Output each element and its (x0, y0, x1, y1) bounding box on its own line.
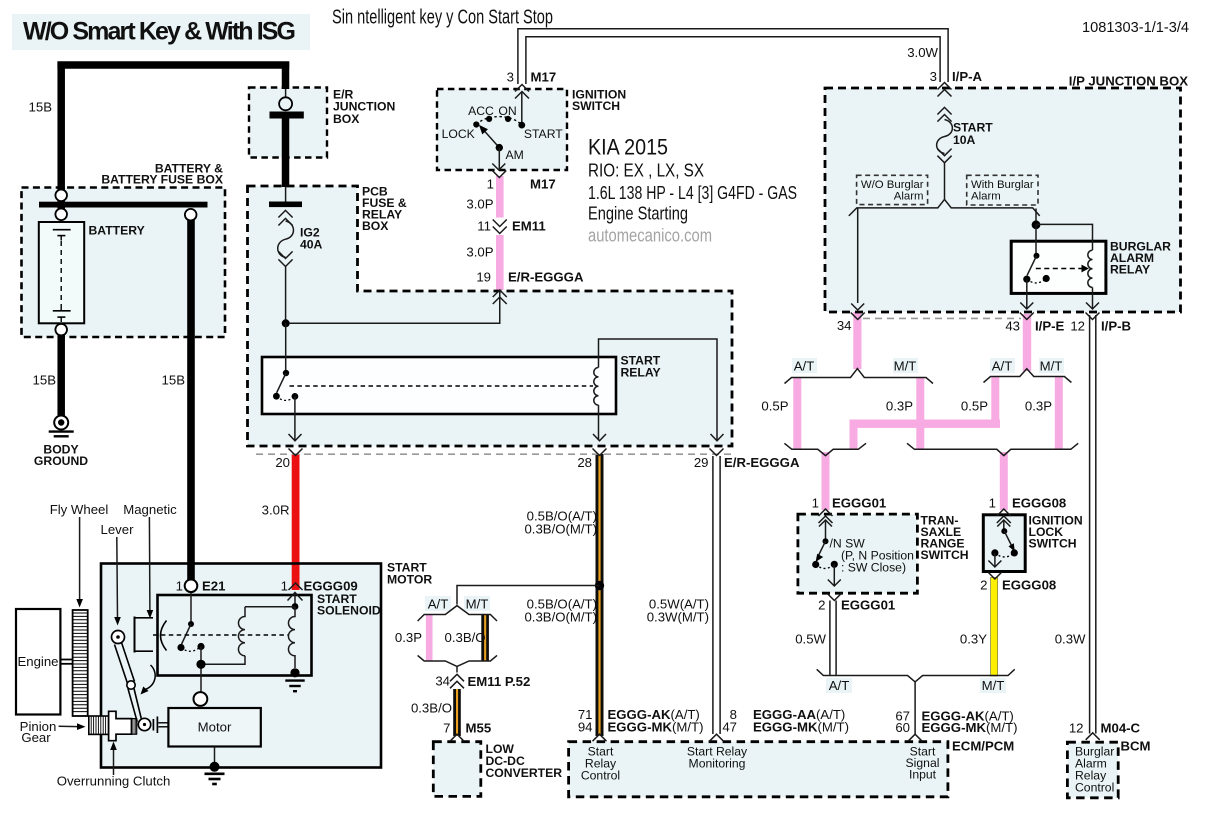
wire ignition lock to box edge with arrowhead (988, 553, 1001, 567)
arrowhead 43 exit (1020, 303, 1033, 310)
svg-text:1: 1 (487, 177, 494, 192)
chevron connector 71/94 entry (593, 734, 607, 741)
svg-text:1: 1 (176, 579, 183, 594)
svg-text:With Burglar: With Burglar (971, 179, 1034, 191)
wire 15B thick left vertical (57, 62, 65, 192)
wire start relay coil bottom to 28 (598, 405, 600, 440)
arrowhead 12 exit (1086, 303, 1099, 310)
ignition lock lower contact dots (991, 549, 998, 556)
wire junction to burglar relay switch (1035, 225, 1037, 253)
svg-text:1: 1 (989, 496, 996, 511)
branch line A/T M/T under 34 (785, 369, 934, 384)
wire AM to box edge (498, 148, 500, 170)
wire W/O branch down to 34 (857, 209, 859, 304)
wire I/P-B white down to BCM (1090, 315, 1096, 734)
wire 0.3B/O black-orange EM11 to M55 (453, 685, 461, 736)
burglar relay lever (1027, 256, 1037, 276)
start solenoid box border (158, 595, 312, 676)
wire 0.5B/O black-orange 28 to ECM (596, 454, 604, 736)
label halo M/T right pair (1039, 358, 1064, 373)
start relay contact dot (283, 370, 289, 376)
wire pink cross band (850, 420, 1001, 428)
battery bottom terminal circle (55, 324, 67, 336)
svg-text:3: 3 (507, 70, 514, 85)
lever rotation arrow (141, 665, 156, 695)
svg-text:1081303-1/1-3/4: 1081303-1/1-3/4 (1082, 20, 1189, 36)
mid branch merge to EM11 (418, 655, 497, 666)
svg-text:M/T: M/T (466, 597, 489, 612)
chevron connector 43 I/P-E (1020, 313, 1034, 320)
start motor box border (101, 564, 381, 768)
burglar alarm relay box border (1011, 241, 1106, 293)
svg-text:SWITCH: SWITCH (572, 99, 620, 113)
wire 3.0P pink M17 to E/R-EGGGA (496, 176, 504, 290)
wire thin stub to E/R terminal circle (285, 89, 287, 98)
wire thick E/R internal (282, 117, 290, 187)
burglar relay dotted throw arc (1027, 279, 1046, 283)
wire fuse to W/O-With branch (944, 163, 946, 200)
svg-text:3.0R: 3.0R (262, 503, 290, 518)
solenoid dotted throw arc (181, 647, 201, 652)
arrowhead into start solenoid (288, 593, 303, 605)
ignition switch dotted arc (476, 117, 522, 126)
start relay coil (594, 368, 599, 406)
label halo A/T bottom (826, 678, 852, 693)
W/O With branch line (849, 199, 1040, 216)
ignition lock switch arrow from connector (997, 520, 1010, 529)
transaxle lower contact dots (812, 561, 819, 568)
overrunning clutch label leader (110, 742, 117, 776)
svg-text:ACC: ACC (468, 104, 494, 118)
svg-text:1: 1 (812, 496, 819, 511)
svg-text:60: 60 (895, 720, 910, 735)
halo EM11 P.52 (450, 673, 465, 690)
ignition switch lever AM to LOCK with arrowhead (479, 125, 499, 148)
svg-text:SWITCH: SWITCH (1029, 537, 1077, 551)
svg-text:EGGG-MK(M/T): EGGG-MK(M/T) (922, 720, 1018, 735)
ignition switch AM contact dot (496, 144, 503, 151)
ignition lock switch box border (983, 515, 1025, 572)
wire pink band drop to EGGG01 branch (850, 424, 858, 449)
PCB fuse relay box fill (248, 186, 733, 446)
svg-text:0.3P: 0.3P (1025, 399, 1052, 414)
flywheel toothed strip (73, 610, 88, 716)
wire 15B thick right to E21 (187, 219, 195, 580)
arrowhead 29 exit (711, 434, 724, 441)
svg-text:EGGG01: EGGG01 (832, 496, 886, 511)
overrunning clutch body (109, 711, 137, 740)
ignition switch box fill (437, 89, 567, 170)
wire transaxle to box edge with arrowhead (828, 564, 841, 586)
svg-text:Monitoring: Monitoring (689, 757, 746, 771)
svg-text:A/T: A/T (794, 359, 815, 374)
svg-text:M/T: M/T (1040, 359, 1063, 374)
svg-text:47: 47 (722, 720, 737, 735)
low dc-dc converter dashed box (433, 742, 481, 797)
ignition switch box dashed border (437, 89, 567, 170)
svg-text:Alarm: Alarm (971, 191, 1001, 203)
transaxle range switch box fill (798, 514, 918, 593)
junction dot burglar feed (1032, 220, 1041, 229)
ECM/PCM dashed box (569, 742, 948, 797)
chevron connector 19 E/R-EGGGA entry (493, 290, 507, 304)
svg-text:1.6L 138 HP - L4 [3] G4FD - G: 1.6L 138 HP - L4 [3] G4FD - GAS (588, 183, 797, 203)
pinion gear label leader (59, 723, 86, 730)
svg-text:A/T: A/T (428, 597, 449, 612)
chevron connector 67/60 ECM (908, 734, 922, 741)
pinion gear (89, 716, 109, 734)
wire burglar switch to 43 (1026, 279, 1028, 309)
start relay dashed armature line (290, 385, 594, 387)
I/P junction box dashed border (825, 88, 1181, 312)
start relay lower contact dots (273, 393, 280, 400)
solenoid ground symbol (285, 681, 304, 692)
label halo M/T bottom (980, 678, 1006, 693)
svg-text:0.3W(M/T): 0.3W(M/T) (647, 610, 709, 625)
svg-text:E/R-EGGGA: E/R-EGGGA (724, 455, 800, 470)
svg-text:Control: Control (581, 769, 620, 783)
motor terminal circle (194, 692, 208, 706)
chevron connector 34 (851, 313, 865, 320)
svg-text:SOLENOID: SOLENOID (317, 604, 381, 618)
svg-text:Overrunning Clutch: Overrunning Clutch (57, 774, 171, 789)
battery box fill (22, 188, 226, 338)
svg-text:0.3P: 0.3P (886, 399, 913, 414)
svg-text:Motor: Motor (198, 720, 232, 735)
svg-text:automecanico.com: automecanico.com (588, 226, 712, 246)
svg-text:0.3B/O(M/T): 0.3B/O(M/T) (524, 522, 597, 537)
svg-text:12: 12 (1070, 319, 1085, 334)
svg-text:: SW Close): : SW Close) (841, 561, 906, 575)
svg-text:19: 19 (476, 270, 491, 285)
label halo A/T left pair (792, 358, 817, 373)
fly wheel label leader (76, 517, 83, 608)
battery terminal circle below bus (55, 209, 67, 221)
chevron connector 20 (289, 449, 303, 456)
solenoid coil feed dot (292, 603, 299, 610)
ignition lock lever with arrowhead (1004, 531, 1015, 552)
svg-text:3.0W: 3.0W (907, 45, 938, 60)
wire E/R-EGGGA 19 into PCB (289, 291, 500, 323)
wire 0.3P pink M/T left (916, 377, 924, 449)
label halo A/T right pair (990, 358, 1015, 373)
svg-text:I/P-B: I/P-B (1101, 319, 1131, 334)
svg-text:Engine: Engine (17, 654, 58, 669)
svg-text:15B: 15B (162, 373, 186, 388)
svg-text:A/T: A/T (829, 678, 850, 693)
solenoid output dot (196, 660, 205, 669)
svg-text:EM11 P.52: EM11 P.52 (468, 674, 531, 689)
BCM dashed box (1067, 742, 1118, 798)
motor box (168, 708, 260, 747)
merge branch to EGGG08 (907, 443, 1078, 455)
wire merge to 67/60 (914, 682, 916, 734)
transaxle switch lever with arrowhead (816, 541, 826, 562)
BCM box fill (1067, 742, 1118, 798)
svg-text:CONVERTER: CONVERTER (486, 766, 563, 780)
svg-text:10A: 10A (953, 133, 976, 147)
wire start relay coil top to 29 drop (599, 339, 718, 440)
svg-text:34: 34 (435, 674, 450, 689)
start relay box border (262, 357, 616, 414)
start relay dotted throw arc (276, 396, 295, 400)
svg-text:E/R-EGGGA: E/R-EGGGA (508, 270, 584, 285)
wire With branch down to junction dot (1035, 209, 1037, 225)
svg-text:Control: Control (1075, 781, 1114, 795)
svg-text:1: 1 (281, 579, 288, 594)
arrowhead 28 exit (593, 434, 606, 441)
wire merge stem to EM11 connector (456, 666, 458, 686)
svg-text:Engine Starting: Engine Starting (588, 204, 688, 224)
svg-text:Magnetic: Magnetic (123, 502, 177, 517)
svg-text:0.3B/O(M/T): 0.3B/O(M/T) (524, 610, 597, 625)
chevron connector 1 EGGG01 entry (819, 509, 833, 523)
gray harness line I/P lower (863, 317, 1021, 319)
magnetic label leader (147, 517, 154, 619)
svg-text:EGGG-MK(M/T): EGGG-MK(M/T) (753, 720, 849, 735)
svg-text:A/T: A/T (992, 359, 1013, 374)
chevron on red wire at EGGG09 (289, 583, 303, 590)
label halo A/T mid (425, 596, 451, 611)
lever label leader (114, 537, 121, 626)
svg-text:28: 28 (577, 455, 592, 470)
wire 0.3B/O black-orange mid M/T (481, 615, 489, 661)
engine to flywheel coupling (60, 660, 72, 664)
chevron connector 12 M04-C BCM (1086, 733, 1100, 740)
solenoid switch contact dot (188, 621, 194, 627)
svg-text:BATTERY: BATTERY (89, 224, 145, 238)
body ground symbol (49, 416, 74, 437)
magnetic yoke bracket (135, 617, 167, 653)
chevron connector 29 (710, 449, 724, 456)
ignition lock dotted throw arc (995, 553, 1014, 557)
burglar relay switch contact dot (1034, 253, 1040, 259)
svg-text:40A: 40A (300, 238, 323, 252)
svg-text:RIO: EX , LX, SX: RIO: EX , LX, SX (588, 161, 704, 181)
label halo M/T left pair (893, 358, 918, 373)
ignition switch rotary contacts (473, 116, 525, 129)
wire 15B thick battery to body ground (57, 333, 65, 417)
svg-text:29: 29 (694, 455, 709, 470)
PCB fuse & relay box dashed border (248, 186, 733, 446)
junction dot on 28 wire (595, 581, 604, 590)
wire junction over to burglar coil (1036, 224, 1093, 250)
svg-text:BOX: BOX (333, 112, 360, 126)
svg-text:ECM/PCM: ECM/PCM (952, 739, 1014, 754)
E/R junction terminal bar (270, 112, 304, 119)
motor ground dot (210, 762, 220, 772)
wire 0.3P pink M/T right (1055, 377, 1063, 449)
ECM/PCM box fill (569, 742, 948, 797)
wire pink EGGG08 (1000, 452, 1008, 510)
svg-text:0.3B/O: 0.3B/O (411, 701, 452, 716)
start motor box fill (101, 564, 381, 768)
transaxle dotted throw arc (816, 564, 835, 568)
wire 0.5P pink 34 to A/T M/T branch (853, 312, 861, 369)
W/O burglar alarm dashed box (857, 175, 928, 204)
PCB terminal bar (269, 202, 302, 208)
solenoid switch lower contact dots (177, 644, 184, 651)
svg-text:2: 2 (980, 578, 987, 593)
svg-text:0.5P: 0.5P (761, 399, 788, 414)
junction dot IG2/E-R-EGGGA (282, 319, 290, 327)
svg-text:43: 43 (1005, 319, 1020, 334)
battery rectangle (39, 222, 84, 323)
chevron connector 8/47 entry (710, 734, 724, 741)
fuse START 10A symbol (937, 107, 953, 162)
svg-text:RELAY: RELAY (1110, 263, 1150, 277)
wire start motor tap to junction (457, 586, 600, 605)
svg-text:20: 20 (275, 455, 290, 470)
svg-text:EM11: EM11 (512, 219, 546, 234)
svg-text:M/T: M/T (982, 678, 1005, 693)
transaxle switch contact dot (823, 538, 829, 544)
chevron connector 28 (593, 449, 607, 456)
svg-text:3.0P: 3.0P (466, 197, 493, 212)
svg-text:KIA 2015: KIA 2015 (588, 135, 668, 160)
svg-text:I/P-A: I/P-A (952, 69, 983, 84)
branch line A/T M/T under 43 (984, 369, 1072, 383)
I/P junction box fill (825, 88, 1181, 312)
svg-text:0.3P: 0.3P (395, 630, 422, 645)
svg-text:0.3B/O: 0.3B/O (445, 630, 486, 645)
solenoid ground dot (290, 668, 299, 677)
svg-text:3.0P: 3.0P (466, 245, 493, 260)
svg-text:94: 94 (578, 720, 593, 735)
ignition lock contact dot (1001, 528, 1007, 534)
solenoid left coil (238, 607, 245, 656)
svg-text:I/P JUNCTION BOX: I/P JUNCTION BOX (1069, 74, 1188, 89)
wire 29 white down to ECM (713, 456, 720, 734)
bus terminal circle right (185, 209, 197, 221)
chevron connector 11 EM11 (493, 220, 507, 234)
bottom merge branch A/T M/T to ECM (817, 669, 1015, 682)
svg-text:7: 7 (443, 721, 450, 736)
mid branch split A/T M/T (418, 606, 497, 621)
wire switch to motor terminal (200, 647, 202, 693)
wire E21 into solenoid switch (190, 592, 192, 622)
ignition switch wire from connector to START contact (521, 92, 523, 123)
E/R junction box dashed border (249, 88, 327, 158)
engine box (16, 609, 60, 715)
chevron connector 7 M55 entry (450, 734, 464, 741)
chevron connector 3 I/P-A (938, 83, 952, 97)
chevron connector 1 M17 (492, 171, 506, 178)
svg-text:GROUND: GROUND (34, 454, 88, 468)
svg-text:LOCK: LOCK (442, 127, 475, 141)
svg-text:BCM: BCM (1121, 739, 1151, 754)
wire 3.0W white path outer (518, 29, 948, 84)
svg-text:34: 34 (837, 318, 852, 333)
gray harness line E/R-EGGGA (256, 453, 735, 455)
burglar relay lower contact dots (1023, 276, 1030, 283)
thick battery feed bus top (57, 61, 289, 69)
svg-text:I/P-E: I/P-E (1035, 319, 1065, 334)
svg-text:BOX: BOX (362, 219, 389, 233)
burglar alarm relay box fill (1011, 241, 1106, 293)
wire junction to relay contact (285, 323, 287, 370)
wire 0.5W white EGGG01 down (830, 601, 836, 676)
svg-text:EGGG01: EGGG01 (841, 598, 895, 613)
chevron connector 12 I/P-B (1086, 313, 1100, 320)
wire 0.3P pink mid A/T (426, 615, 433, 661)
battery box bus bar (39, 202, 208, 208)
battery cell symbol bottom (53, 304, 71, 322)
shift lever linkage (112, 631, 151, 731)
battery center dashed line (60, 241, 62, 304)
svg-text:ON: ON (498, 104, 516, 118)
svg-text:12: 12 (1069, 721, 1084, 736)
svg-text:M04-C: M04-C (1101, 721, 1141, 736)
start relay movable contact lever (277, 373, 286, 393)
wire pink EGGG01 (822, 452, 830, 510)
transaxle switch arrow from connector (819, 520, 832, 539)
svg-text:M55: M55 (466, 721, 492, 736)
burglar relay coil (1088, 250, 1093, 287)
svg-text:15B: 15B (33, 373, 57, 388)
title background (12, 14, 310, 50)
wire 0.5P pink A/T right (991, 377, 999, 424)
svg-text:MOTOR: MOTOR (387, 573, 432, 587)
motor ground wire (214, 747, 216, 764)
ignition lock switch box fill (983, 515, 1025, 572)
solenoid switch lever (182, 624, 191, 644)
svg-text:M/T: M/T (894, 359, 917, 374)
clutch to motor coupler (153, 717, 168, 734)
svg-text:Gear: Gear (21, 730, 51, 745)
svg-text:RELAY: RELAY (621, 366, 661, 380)
svg-text:3: 3 (930, 69, 937, 84)
chevron connector 2 EGGG01 (827, 594, 841, 601)
motor ground symbol (205, 774, 225, 784)
svg-text:0.5P: 0.5P (961, 399, 988, 414)
solenoid coil top link (245, 606, 295, 608)
svg-text:Input: Input (909, 768, 937, 782)
svg-text:0.5W: 0.5W (795, 632, 826, 647)
wire thick to E/R junction box (282, 62, 290, 90)
battery cell symbol top (53, 230, 71, 241)
chevron connector 1 EGGG08 entry (997, 509, 1011, 523)
svg-text:W/O Burglar: W/O Burglar (861, 179, 924, 191)
svg-text:Fly Wheel: Fly Wheel (50, 502, 109, 517)
wire thin stub into PCB terminal (285, 187, 287, 202)
svg-text:M17: M17 (531, 70, 557, 85)
svg-text:0.3W: 0.3W (1055, 632, 1086, 647)
svg-text:E21: E21 (202, 579, 225, 594)
svg-text:M17: M17 (530, 177, 556, 192)
solenoid right coil (288, 607, 295, 668)
E/R junction terminal circle (279, 97, 292, 110)
svg-text:2: 2 (818, 598, 825, 613)
chevron connector 3 M17 (515, 85, 529, 99)
svg-text:EGGG-MK(M/T): EGGG-MK(M/T) (608, 720, 704, 735)
solenoid dashed plunger line (153, 634, 288, 636)
chevron connector 34 EM11 P.52 (450, 674, 464, 688)
arrowhead 34 exit (851, 304, 864, 311)
merge branch to EGGG01 (784, 443, 866, 455)
svg-text:W/O Smart Key & With ISG: W/O Smart Key & With ISG (23, 18, 296, 46)
wire 0.5P pink A/T left (793, 377, 801, 449)
arrowhead AM exit (492, 164, 505, 171)
arrowhead 20 exit (289, 434, 302, 441)
E21 terminal circle (185, 580, 198, 593)
wire 0.3Y yellow EGGG08 to M/T (991, 578, 998, 677)
transaxle range switch dashed box (798, 514, 918, 593)
wire burglar coil to 12 (1092, 287, 1094, 309)
solenoid left coil bottom link (205, 656, 245, 665)
wire thick battery top stub (57, 197, 65, 211)
burglar relay dashed armature with arrow (1036, 265, 1089, 273)
